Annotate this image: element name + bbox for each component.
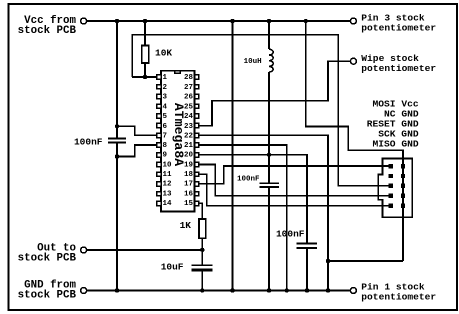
svg-text:14: 14: [163, 200, 173, 208]
svg-text:MISO GND: MISO GND: [373, 139, 419, 150]
wire pin 20 AVCC run: [199, 155, 307, 244]
capacitor C3 100nF: [297, 244, 317, 248]
header pins left column: [389, 164, 406, 208]
svg-text:5: 5: [163, 113, 168, 121]
svg-text:13: 13: [163, 191, 173, 199]
wire pin 22 to GND: [199, 135, 328, 290]
wire C3 to GND rail: [306, 248, 308, 291]
svg-text:100nF: 100nF: [276, 229, 305, 240]
svg-text:100nF: 100nF: [237, 175, 260, 183]
svg-text:10uH: 10uH: [244, 58, 262, 66]
svg-text:17: 17: [184, 181, 193, 189]
wire top Vcc rail: [87, 20, 351, 22]
svg-text:stock PCB: stock PCB: [18, 25, 77, 37]
wire Vcc drop to C1: [116, 21, 118, 138]
svg-text:9: 9: [163, 152, 168, 160]
IC pin numbers left: [163, 74, 173, 208]
svg-text:4: 4: [163, 103, 168, 111]
svg-text:potentiometer: potentiometer: [361, 63, 436, 74]
svg-text:1: 1: [163, 74, 168, 82]
resistor R1 10K: [142, 46, 149, 64]
svg-text:24: 24: [184, 113, 194, 121]
terminal Pin 1 stock potentiometer: [350, 288, 356, 294]
wire Vcc to L1: [268, 21, 270, 49]
header J1 ISP box: [378, 158, 412, 217]
svg-text:23: 23: [184, 123, 194, 131]
terminal Vcc from stock PCB: [81, 18, 87, 24]
wire C2 to GND rail: [268, 187, 270, 291]
wire pin 15 to R2: [199, 203, 202, 219]
svg-text:28: 28: [184, 74, 194, 82]
wire reset node to pin 1: [132, 76, 157, 78]
resistor R2 1K: [199, 219, 206, 238]
svg-text:3: 3: [163, 94, 168, 102]
svg-text:stock PCB: stock PCB: [18, 290, 77, 302]
capacitor C1 100nF: [108, 139, 126, 143]
IC pins right 28-15: [195, 75, 199, 79]
wire C1 bottom to pin 8: [117, 145, 157, 157]
svg-text:10: 10: [163, 161, 173, 169]
header signal labels: [367, 99, 419, 150]
svg-text:1K: 1K: [180, 220, 192, 231]
wire R2 bottom to C5: [201, 238, 203, 265]
svg-text:27: 27: [184, 84, 193, 92]
svg-text:19: 19: [184, 161, 194, 169]
wire pin 18 MISO: [199, 174, 389, 205]
capacitor C5 10uF: [191, 264, 212, 266]
terminal Wipe stock potentiometer: [350, 58, 356, 64]
wire pin 17 MOSI: [199, 166, 389, 184]
svg-text:potentiometer: potentiometer: [361, 291, 436, 302]
svg-text:22: 22: [184, 133, 194, 141]
svg-text:100nF: 100nF: [74, 136, 103, 147]
svg-text:26: 26: [184, 94, 194, 102]
terminal GND from stock PCB: [81, 288, 87, 294]
terminal Out to stock PCB: [81, 247, 87, 253]
IC pin numbers right: [184, 74, 194, 208]
svg-text:15: 15: [184, 200, 194, 208]
svg-text:10K: 10K: [155, 47, 172, 58]
inductor L1 10uH: [269, 49, 273, 72]
svg-text:7: 7: [163, 133, 168, 141]
terminal Pin 3 stock potentiometer: [350, 18, 356, 24]
svg-text:12: 12: [163, 181, 173, 189]
header pins right column: [401, 164, 405, 168]
wire pin 21 to GND: [199, 145, 287, 291]
wire Out to stock PCB: [87, 249, 203, 251]
svg-text:18: 18: [184, 171, 194, 179]
IC pins left 1-14: [157, 75, 199, 206]
svg-text:11: 11: [163, 171, 173, 179]
wire RESET run: [132, 35, 389, 186]
svg-text:16: 16: [184, 191, 194, 199]
wire C1 top to pin 7: [117, 126, 157, 135]
wire Vcc mid drop: [232, 21, 234, 291]
wire C1 to GND rail: [116, 142, 118, 290]
svg-text:25: 25: [184, 103, 194, 111]
wire L1 to C2: [268, 72, 270, 183]
wire pin 23 to Wipe: [199, 61, 351, 125]
wire pin 19 SCK: [199, 165, 389, 196]
svg-text:stock PCB: stock PCB: [18, 253, 77, 265]
op IC U1 ATmega8A body: [161, 71, 195, 212]
svg-text:10uF: 10uF: [161, 261, 184, 272]
svg-text:potentiometer: potentiometer: [361, 23, 436, 34]
wire bottom GND rail: [87, 290, 351, 292]
capacitor C2 100nF: [260, 183, 280, 187]
svg-text:6: 6: [163, 123, 168, 131]
IC notch: [175, 71, 181, 74]
svg-text:21: 21: [184, 142, 194, 150]
svg-text:2: 2: [163, 84, 168, 92]
wire C5 to GND rail: [201, 271, 203, 290]
wire Vcc to R1 top: [144, 21, 146, 46]
svg-text:8: 8: [163, 142, 168, 150]
wire R1 bottom to node: [144, 63, 146, 77]
svg-text:20: 20: [184, 152, 194, 160]
wire GND to header: [328, 260, 403, 262]
wire Vcc to header: [306, 21, 403, 261]
